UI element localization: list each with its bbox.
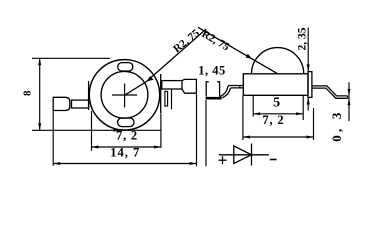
LED top view: outer circle (89, 60, 159, 130)
arrow on 130 line (114, 129, 120, 132)
side view dome (252, 48, 304, 74)
svg-text:0, 3: 0, 3 (329, 109, 344, 141)
left body flat (88, 81, 90, 110)
ext 5 left (252, 96, 254, 117)
ext bottom left (52, 111, 54, 166)
dim 8: dimension line (39, 58, 41, 130)
arrow 7,2 side left (243, 136, 250, 139)
1,45 cup right wall (217, 82, 220, 97)
dim 2,35 lower line (307, 98, 309, 111)
arrow 0,3 down (348, 89, 351, 96)
right lead bottom edge (312, 88, 348, 98)
side view left lead S-bend upper (220, 86, 243, 97)
right lead end cap (347, 96, 349, 98)
LED top view: inner lens circle (101, 71, 148, 118)
arrow 2,35 up (307, 98, 310, 105)
leader R2,75 left (125, 29, 206, 95)
dim 7,2 side line (243, 136, 314, 138)
ext 7,2 side right (313, 108, 315, 140)
dim 5 line (253, 113, 303, 115)
arrow bottom right (190, 162, 197, 165)
arrow 0,3 up (348, 98, 351, 105)
right lead top edge (312, 86, 348, 96)
dim 8: top extension line (32, 57, 110, 59)
right slot (165, 91, 168, 106)
dim 2,35 upper line (307, 28, 309, 72)
right inner hang line (171, 89, 173, 109)
bottom notch (118, 118, 134, 127)
arrow 14,7 right (154, 146, 161, 149)
ext 7,2 side left (242, 96, 244, 140)
top notch (118, 63, 133, 71)
arrow 5 right (296, 112, 303, 115)
svg-text:2, 35: 2, 35 (297, 27, 309, 50)
leader R2,75 right (198, 27, 278, 73)
svg-text:7, 2: 7, 2 (116, 129, 138, 143)
arrow 8 top (38, 58, 41, 65)
arrow 2,35 down (307, 64, 310, 71)
left lead pad (53, 97, 70, 110)
arrow leader1 (147, 76, 154, 82)
arrow 8 bottom (38, 123, 41, 130)
arrow 14,7 left (92, 146, 99, 149)
svg-text:14, 7: 14, 7 (110, 145, 140, 159)
svg-text:1, 45: 1, 45 (198, 63, 226, 77)
dim 14,7 line (92, 146, 161, 148)
right body flat (160, 74, 162, 114)
arrow 5 left (253, 112, 260, 115)
1,45 cup bottom (206, 97, 222, 100)
svg-text:8: 8 (22, 90, 34, 96)
dim 8 / 7,2: bottom extension line (32, 129, 161, 131)
ext 14,7 left (91, 111, 93, 151)
svg-text:7, 2: 7, 2 (262, 113, 284, 127)
svg-text:5: 5 (273, 96, 280, 111)
plus sign (219, 159, 227, 161)
crosshair vertical (124, 84, 126, 108)
right lead pad (182, 79, 196, 93)
1,45 cup left wall (206, 82, 209, 97)
side view flange (308, 72, 312, 98)
dim 0,3 line (348, 82, 350, 121)
side view body (243, 74, 308, 96)
crosshair horizontal (112, 94, 137, 96)
arrow bottom left (53, 162, 60, 165)
right lead neck (162, 81, 182, 89)
bottom overall dim line (53, 163, 196, 165)
diode cathode bar (251, 144, 253, 166)
ext right common (160, 114, 162, 148)
ext bottom right (from right pad) (196, 93, 198, 166)
lead end tick (239, 86, 241, 88)
ext from cup (205, 100, 207, 166)
arrow leader2 (246, 54, 252, 59)
arrow 7,2 side right (307, 136, 314, 139)
diode triangle (234, 146, 252, 164)
diode lead (219, 154, 269, 156)
left lead neck (72, 100, 89, 108)
minus sign (270, 159, 277, 161)
ext 5 right (302, 96, 304, 120)
side view left lead S-bend lower (222, 88, 243, 98)
